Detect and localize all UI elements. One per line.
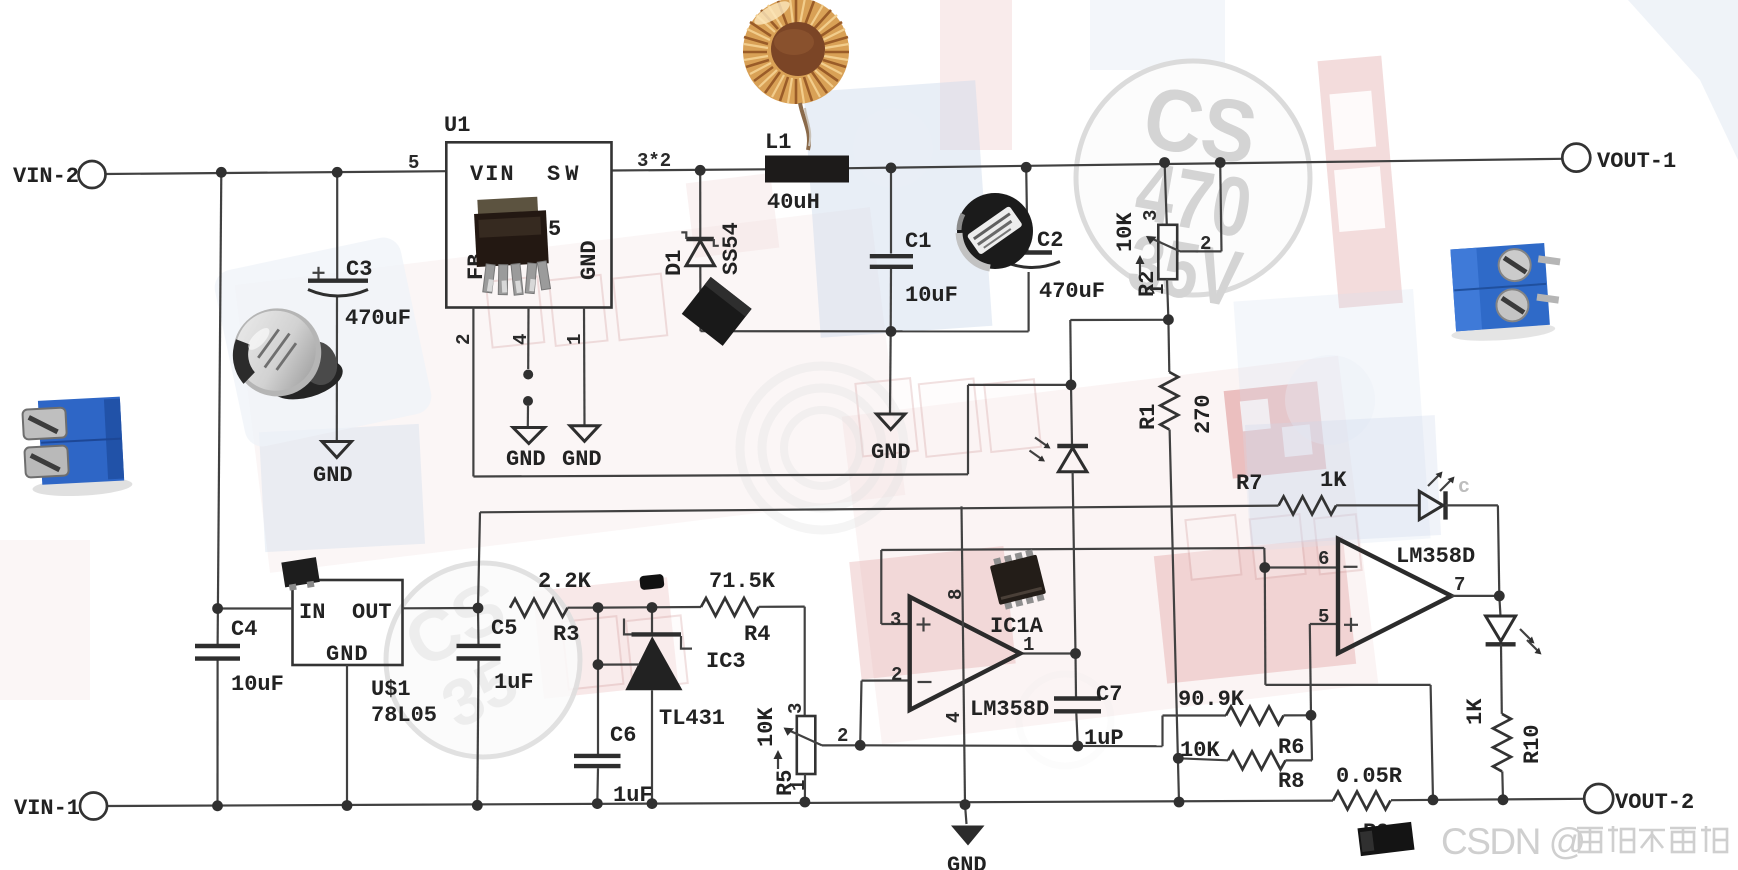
svg-text:1uP: 1uP <box>1084 726 1124 751</box>
svg-text:2: 2 <box>891 664 902 686</box>
svg-text:GND: GND <box>326 642 369 667</box>
svg-text:3: 3 <box>785 703 807 714</box>
svg-text:270: 270 <box>1191 394 1216 434</box>
svg-text:IC1A: IC1A <box>990 614 1044 639</box>
svg-text:VIN: VIN <box>470 162 516 187</box>
svg-text:1: 1 <box>564 334 586 345</box>
svg-text:C7: C7 <box>1096 682 1122 707</box>
svg-text:5: 5 <box>548 217 561 242</box>
svg-text:VIN-2: VIN-2 <box>13 164 79 189</box>
svg-text:1: 1 <box>1147 284 1169 295</box>
svg-text:D1: D1 <box>662 250 687 276</box>
svg-text:10K: 10K <box>754 707 779 747</box>
svg-text:LM358D: LM358D <box>970 697 1049 722</box>
svg-text:C1: C1 <box>905 229 931 254</box>
svg-text:U$1: U$1 <box>371 677 411 702</box>
svg-text:VOUT-2: VOUT-2 <box>1615 790 1694 815</box>
svg-text:5: 5 <box>408 152 419 174</box>
svg-text:71.5K: 71.5K <box>709 569 776 594</box>
svg-text:3*2: 3*2 <box>637 150 671 172</box>
svg-text:GND: GND <box>871 440 911 465</box>
svg-text:10uF: 10uF <box>905 283 958 308</box>
svg-text:4: 4 <box>510 334 532 345</box>
svg-text:R4: R4 <box>744 622 770 647</box>
svg-text:470uF: 470uF <box>1039 279 1105 304</box>
svg-text:GND: GND <box>313 463 353 488</box>
svg-text:1: 1 <box>788 780 810 791</box>
svg-text:SS54: SS54 <box>719 222 744 275</box>
svg-text:1K: 1K <box>1463 698 1488 725</box>
svg-text:90.9K: 90.9K <box>1178 687 1245 712</box>
svg-text:0.05R: 0.05R <box>1336 764 1403 789</box>
svg-text:R3: R3 <box>553 622 579 647</box>
svg-text:1uF: 1uF <box>494 670 534 695</box>
svg-text:c: c <box>1458 476 1470 499</box>
svg-text:4: 4 <box>943 712 965 723</box>
svg-text:C4: C4 <box>231 617 257 642</box>
svg-text:CSDN @: CSDN @ <box>1441 821 1585 862</box>
svg-text:470uF: 470uF <box>345 306 411 331</box>
svg-text:C3: C3 <box>346 257 372 282</box>
svg-text:VOUT-1: VOUT-1 <box>1597 149 1676 174</box>
svg-text:10K: 10K <box>1113 212 1138 252</box>
svg-text:7: 7 <box>1454 574 1465 596</box>
svg-text:GND: GND <box>506 447 546 472</box>
svg-text:8: 8 <box>945 589 967 600</box>
svg-text:VIN-1: VIN-1 <box>14 796 80 821</box>
svg-text:LM358D: LM358D <box>1396 544 1475 569</box>
svg-text:3: 3 <box>890 609 901 631</box>
svg-text:IN: IN <box>299 600 325 625</box>
svg-text:5: 5 <box>1318 606 1329 628</box>
svg-text:R7: R7 <box>1236 471 1262 496</box>
svg-text:OUT: OUT <box>352 600 392 625</box>
svg-text:10uF: 10uF <box>231 672 284 697</box>
svg-text:R6: R6 <box>1278 735 1304 760</box>
svg-text:2: 2 <box>453 334 475 345</box>
svg-text:GND: GND <box>947 853 987 870</box>
svg-text:SW: SW <box>547 162 583 187</box>
svg-text:L1: L1 <box>765 130 791 155</box>
svg-text:40uH: 40uH <box>767 190 820 215</box>
svg-text:GND: GND <box>577 240 602 280</box>
svg-text:78L05: 78L05 <box>371 703 437 728</box>
svg-text:TL431: TL431 <box>659 706 725 731</box>
svg-text:1uF: 1uF <box>613 783 653 808</box>
svg-text:GND: GND <box>562 447 602 472</box>
svg-text:R8: R8 <box>1278 769 1304 794</box>
svg-text:3: 3 <box>1140 210 1162 221</box>
svg-text:IC3: IC3 <box>706 649 746 674</box>
svg-text:U1: U1 <box>444 113 470 138</box>
svg-text:1K: 1K <box>1320 468 1347 493</box>
svg-text:R1: R1 <box>1136 404 1161 430</box>
svg-text:2: 2 <box>837 725 848 747</box>
svg-text:C2: C2 <box>1037 228 1063 253</box>
svg-text:10K: 10K <box>1180 738 1220 763</box>
svg-text:C6: C6 <box>610 723 636 748</box>
svg-text:R10: R10 <box>1520 724 1545 764</box>
svg-text:2.2K: 2.2K <box>538 569 592 594</box>
svg-text:C5: C5 <box>491 616 517 641</box>
svg-text:2: 2 <box>1200 233 1211 255</box>
svg-text:6: 6 <box>1318 548 1329 570</box>
